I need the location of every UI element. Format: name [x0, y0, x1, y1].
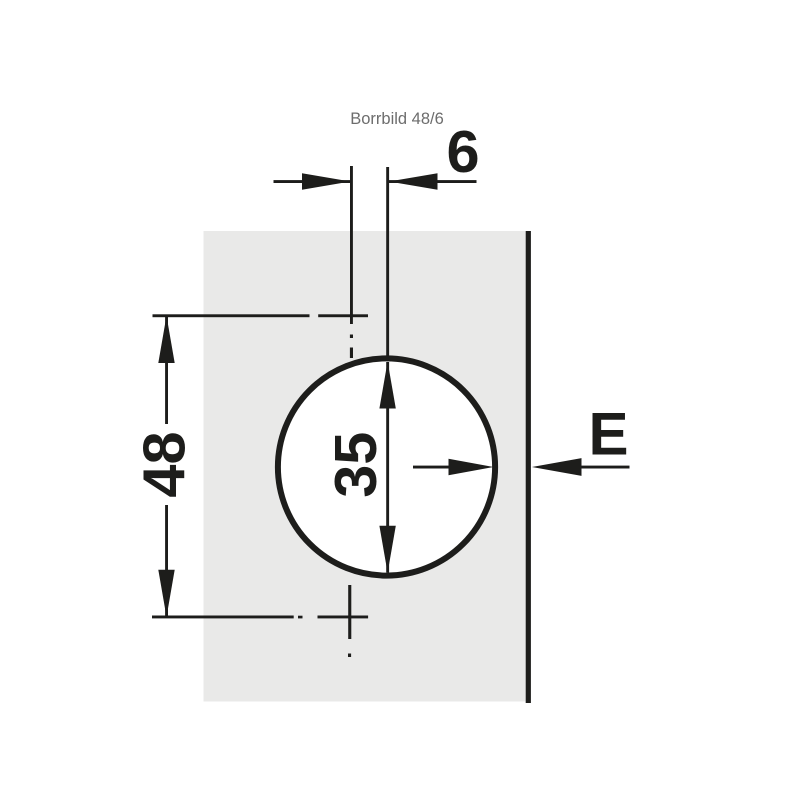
- dimension 48: bottom reference line: [152, 616, 294, 619]
- dimension 6: left arrowhead (points right): [302, 173, 350, 189]
- top drill hole centreline: dot: [350, 335, 353, 339]
- dimension 6: left extension line: [350, 166, 353, 324]
- cup radius arrow: arrowhead (points right to cup edge): [449, 459, 494, 475]
- svg-text:35: 35: [322, 432, 389, 498]
- cup hole circle: [278, 358, 495, 575]
- svg-text:48: 48: [131, 431, 198, 497]
- dimension 48: vertical dimension line upper part: [165, 316, 168, 424]
- dimension E: tail line: [581, 466, 630, 469]
- svg-text:E: E: [588, 400, 628, 467]
- dimension 48: vertical dimension line lower part: [165, 505, 168, 617]
- dimension 6: right extension line / cup centre line: [386, 167, 389, 357]
- dimension 6: left dimension line: [274, 180, 351, 183]
- dimension 35: vertical line inside cup: [386, 362, 389, 573]
- dimension 6: right dimension line: [389, 180, 477, 183]
- bottom drill hole centreline: dot: [348, 654, 351, 658]
- svg-text:6: 6: [446, 118, 479, 185]
- svg-text:Borrbild 48/6: Borrbild 48/6: [350, 110, 444, 128]
- panel (grey board): [204, 231, 526, 702]
- dimension 48: top arrowhead (points up): [158, 316, 174, 363]
- dimension E: arrowhead (points left to panel edge): [532, 458, 582, 476]
- bottom drill hole centreline: dash: [348, 585, 351, 639]
- top drill hole centreline: dash: [350, 348, 353, 359]
- dimension 48: bottom arrowhead (points down): [158, 570, 174, 617]
- dimension 48: top reference line: [153, 314, 310, 317]
- cup radius arrow: tail line: [413, 466, 463, 469]
- dimension 6: right arrowhead (points left): [389, 173, 438, 189]
- dimension 35: bottom arrowhead (points down): [379, 526, 395, 573]
- dimension 35: top arrowhead (points up): [379, 362, 395, 409]
- panel front edge thick line: [526, 231, 531, 703]
